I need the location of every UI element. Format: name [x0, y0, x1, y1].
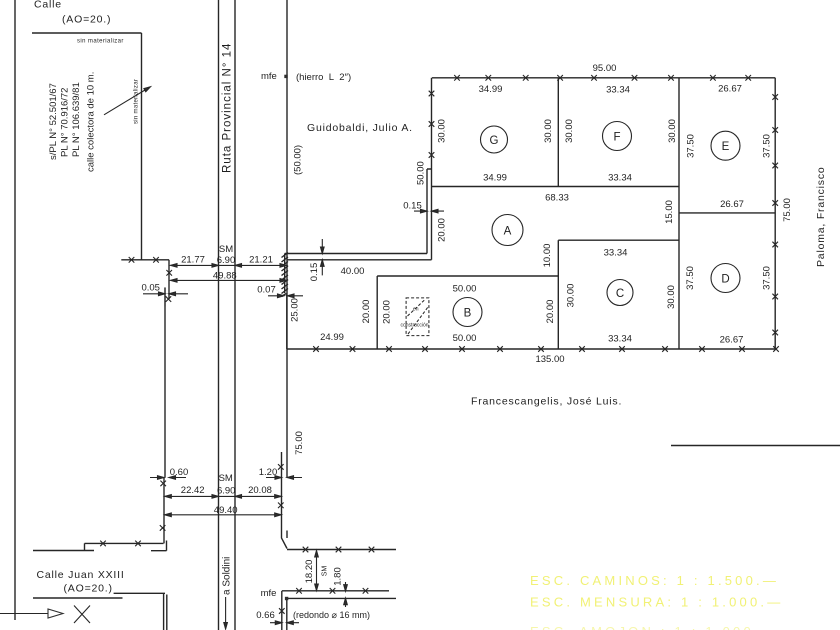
dimension 1.80 vertical [345, 582, 347, 607]
dimension 18.20 vertical [316, 555, 318, 586]
ruta SM strip west line [218, 0, 220, 630]
svg-text:26.67: 26.67 [720, 335, 744, 346]
X marks fence east of ruta [279, 588, 368, 614]
svg-text:en: en [413, 307, 419, 313]
ruta SM strip east line [234, 0, 236, 630]
svg-text:30.00: 30.00 [666, 285, 677, 309]
parcel circle B [453, 298, 482, 327]
svg-text:(redondo ⌀ 16 mm): (redondo ⌀ 16 mm) [293, 610, 370, 620]
boundary line west of ruta [121, 259, 169, 261]
svg-text:s/PL N° 52.501/67: s/PL N° 52.501/67 [48, 83, 59, 160]
X marks ruta west edge [160, 270, 172, 531]
svg-text:PL N° 70.916/72: PL N° 70.916/72 [60, 88, 71, 157]
svg-text:calle colectora de 10 m.: calle colectora de 10 m. [86, 72, 97, 172]
parcel divider G/F [557, 78, 559, 187]
svg-text:30.00: 30.00 [564, 119, 575, 143]
svg-text:25.00: 25.00 [290, 298, 301, 322]
survey X marks south boundary [313, 346, 779, 352]
property east boundary [774, 78, 776, 349]
svg-text:Calle Juan XXIII: Calle Juan XXIII [37, 569, 125, 581]
svg-text:F: F [613, 132, 620, 144]
parcel circle E [711, 131, 740, 160]
svg-text:E: E [722, 141, 730, 153]
calle Juan XXIII south edge west [33, 593, 165, 598]
svg-text:sin materializar: sin materializar [134, 79, 140, 124]
calle Juan XXIII south edge east [287, 597, 396, 599]
divider F/E + A east + C/D [678, 78, 680, 349]
dimension 1.20 [266, 477, 302, 479]
svg-text:SM: SM [219, 473, 233, 484]
svg-text:(AO=20.): (AO=20.) [62, 14, 111, 26]
dimension 0.15 vertical at boundary jog [321, 239, 323, 275]
svg-text:20.00: 20.00 [381, 300, 392, 324]
svg-text:33.34: 33.34 [604, 248, 628, 259]
svg-text:75.00: 75.00 [782, 198, 793, 222]
svg-text:Francescangelis, José Luis.: Francescangelis, José Luis. [471, 396, 622, 408]
svg-text:50.00: 50.00 [416, 161, 427, 185]
svg-text:22.42: 22.42 [181, 485, 205, 496]
svg-text:24.99: 24.99 [320, 332, 344, 343]
svg-text:50.00: 50.00 [453, 284, 477, 295]
dimension 0.05 [143, 287, 188, 306]
svg-text:20.00: 20.00 [437, 218, 448, 242]
dimension line 49.88 [171, 279, 287, 281]
west arrow with line [0, 613, 49, 615]
svg-text:Ruta Provincial N° 14: Ruta Provincial N° 14 [222, 43, 234, 173]
svg-text:ESC. AMOJON.: 1 : 1.000.—: ESC. AMOJON.: 1 : 1.000.— [530, 624, 777, 630]
calle Juan XXIII north edge west [33, 543, 164, 550]
svg-text:(AO=20.): (AO=20.) [64, 583, 113, 595]
parcel C west / B east divider [557, 240, 559, 349]
mfe monument dot bottom [285, 597, 288, 600]
dimension 0.07 [268, 295, 303, 297]
svg-text:75.00: 75.00 [294, 431, 305, 455]
svg-text:37.50: 37.50 [685, 266, 696, 290]
svg-text:Guidobaldi, Julio A.: Guidobaldi, Julio A. [307, 122, 413, 134]
fence line east of ruta [282, 590, 389, 592]
svg-text:18.20: 18.20 [304, 560, 315, 584]
svg-text:ESC. MENSURA: 1 : 1.000.—: ESC. MENSURA: 1 : 1.000.— [530, 595, 783, 610]
dim text 95.00 [141, 63, 743, 621]
road edge vertical below mfe corner [281, 591, 283, 630]
parcel circle F [603, 122, 632, 151]
calle colectora enclosure east line [141, 33, 143, 260]
svg-text:30.00: 30.00 [566, 284, 577, 308]
svg-text:A: A [504, 226, 512, 238]
parcel A north boundary [432, 186, 679, 188]
hatch ticks [282, 253, 289, 297]
svg-text:10.00: 10.00 [542, 244, 553, 268]
dimension line 21.77 / 21.21 upper [171, 264, 287, 266]
svg-text:sin materializar: sin materializar [77, 39, 124, 45]
title block line right [671, 445, 840, 447]
svg-text:6.90: 6.90 [217, 255, 236, 266]
X marks west boundary line ticks [129, 257, 159, 263]
svg-text:30.00: 30.00 [437, 119, 448, 143]
parcel circle D [711, 264, 740, 293]
svg-text:construcción: construcción [401, 323, 429, 329]
left page border line [14, 0, 16, 620]
svg-text:a Soldini: a Soldini [222, 557, 233, 595]
parcel circle G [453, 122, 740, 327]
svg-text:0.05: 0.05 [141, 283, 160, 294]
svg-text:0.07: 0.07 [257, 285, 276, 296]
svg-text:37.50: 37.50 [762, 134, 773, 158]
svg-text:49.88: 49.88 [213, 271, 237, 282]
svg-text:49.40: 49.40 [214, 505, 238, 516]
svg-text:PL N° 106.639/81: PL N° 106.639/81 [71, 82, 82, 157]
svg-text:37.50: 37.50 [762, 266, 773, 290]
parcel letters [464, 132, 730, 320]
svg-text:30.00: 30.00 [543, 119, 554, 143]
svg-text:33.34: 33.34 [608, 173, 632, 184]
parcel circle C [607, 280, 633, 306]
svg-text:50.00: 50.00 [453, 333, 477, 344]
svg-text:135.00: 135.00 [535, 354, 564, 365]
parcel B west boundary [376, 276, 378, 349]
rotated dims [290, 119, 794, 586]
svg-text:0.15: 0.15 [403, 201, 422, 212]
ruta east edge lower (1.20 jog) [282, 452, 288, 549]
svg-text:0.66: 0.66 [256, 610, 275, 621]
parcel circle A [492, 215, 523, 246]
ruta east edge stub [286, 531, 288, 539]
svg-text:Calle: Calle [34, 0, 62, 11]
svg-text:0.60: 0.60 [170, 467, 189, 478]
svg-text:40.00: 40.00 [341, 266, 365, 277]
ruta east edge upper [286, 0, 288, 478]
fence corner bracket SW of ruta [151, 541, 167, 551]
leader arrow sin materializar [104, 89, 148, 115]
svg-text:34.99: 34.99 [479, 84, 503, 95]
svg-text:mfe: mfe [261, 588, 277, 599]
divider E/D [679, 212, 775, 214]
svg-text:33.34: 33.34 [608, 334, 632, 345]
en construccion building symbol [406, 298, 429, 336]
X marks ruta east edge [278, 464, 284, 508]
svg-text:C: C [616, 288, 624, 300]
dimension 0.15 at A west [414, 210, 444, 212]
property south boundary [287, 293, 775, 349]
svg-text:ESC. CAMINOS: 1 : 1.500.—: ESC. CAMINOS: 1 : 1.500.— [530, 573, 779, 588]
road edge vertical lower [286, 598, 288, 630]
survey X marks east boundary [772, 94, 778, 335]
svg-text:SM: SM [219, 244, 233, 255]
calle Juan XXIII corner double line down [164, 593, 167, 630]
svg-text:37.50: 37.50 [686, 134, 697, 158]
parcel B north boundary [377, 275, 558, 277]
svg-text:1.20: 1.20 [259, 467, 278, 478]
svg-text:1.80: 1.80 [332, 567, 343, 586]
dimension 0.60 [150, 477, 186, 479]
svg-text:26.67: 26.67 [720, 199, 744, 210]
svg-text:26.67: 26.67 [718, 84, 742, 95]
dimension line 22.42 / 20.08 lower [165, 495, 281, 497]
svg-text:15.00: 15.00 [664, 200, 675, 224]
a Soldini direction arrow [225, 597, 227, 624]
big X mark at southwest [74, 606, 90, 624]
svg-text:68.33: 68.33 [545, 193, 569, 204]
parcel C north boundary [558, 239, 679, 241]
property north boundary [432, 77, 775, 79]
X marks Juan XXIII west [100, 541, 141, 547]
svg-text:30.00: 30.00 [667, 119, 678, 143]
svg-text:SM: SM [322, 566, 329, 577]
ruta west edge upper [168, 260, 170, 299]
dimension 0.66 [270, 622, 299, 624]
fence 0.15 offset line [285, 169, 432, 254]
svg-text:(hierro L 2″): (hierro L 2″) [296, 72, 351, 83]
survey X marks north boundary [454, 75, 751, 81]
svg-text:21.21: 21.21 [249, 255, 273, 266]
fence hatched segment at road [284, 254, 286, 294]
svg-text:33.34: 33.34 [606, 85, 630, 96]
svg-text:20.00: 20.00 [545, 300, 556, 324]
svg-text:6.90: 6.90 [217, 486, 236, 497]
X marks Juan XXIII east [303, 547, 375, 553]
property west boundary (G + A) [431, 78, 433, 260]
svg-text:Paloma, Francisco: Paloma, Francisco [815, 166, 827, 267]
svg-text:0.15: 0.15 [309, 263, 320, 282]
calle Juan XXIII north edge east [287, 549, 396, 551]
svg-text:G: G [490, 135, 499, 147]
ruta west edge lower (0.60 jog) [163, 478, 165, 544]
svg-text:B: B [464, 308, 472, 320]
dimension line 49.40 [165, 514, 281, 516]
A south-west boundary to road [287, 259, 432, 261]
ruta west edge mid (0.05 jog) [164, 288, 166, 478]
svg-text:20.08: 20.08 [248, 485, 272, 496]
calle colectora enclosure top line [32, 32, 142, 34]
svg-text:mfe: mfe [261, 71, 277, 82]
svg-text:D: D [721, 274, 729, 286]
svg-text:20.00: 20.00 [361, 300, 372, 324]
svg-text:34.99: 34.99 [483, 173, 507, 184]
svg-text:21.77: 21.77 [181, 255, 205, 266]
svg-text:95.00: 95.00 [593, 63, 617, 74]
survey X marks west boundary [429, 91, 435, 158]
mfe monument dot top [284, 75, 287, 78]
Ruta Provincial N 14 [222, 43, 234, 173]
svg-text:(50.00): (50.00) [293, 145, 304, 175]
